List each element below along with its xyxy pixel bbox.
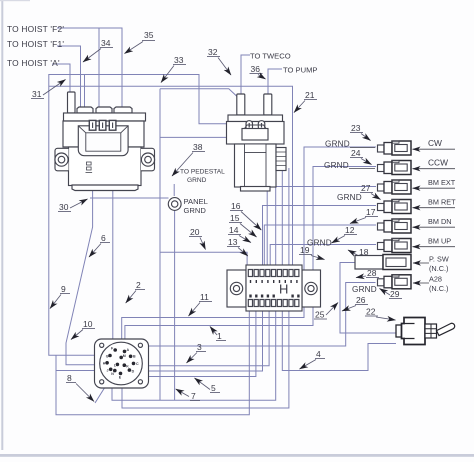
svg-text:11: 11 <box>200 292 209 302</box>
svg-text:22: 22 <box>366 307 376 317</box>
wire CW route to connector <box>122 147 376 350</box>
svg-text:M: M <box>123 354 126 358</box>
tab 1 <box>77 107 93 113</box>
svg-text:GRND: GRND <box>325 140 350 149</box>
svg-text:15: 15 <box>230 213 240 223</box>
right-side plug BM RET <box>378 200 412 214</box>
svg-text:K: K <box>126 364 129 368</box>
wire solenoid A to connector top <box>112 131 114 351</box>
svg-text:2: 2 <box>136 280 141 290</box>
label TO PEDESTAL GRND <box>180 169 225 185</box>
wire TO HOIST F2 to solenoid A tab3 <box>57 28 122 107</box>
wire strip exit5 to connector bottom <box>112 311 276 400</box>
callout 10 <box>71 319 95 340</box>
wire strip exit7 to connector bottom 2 <box>122 311 289 408</box>
wire A2B to under strip <box>148 283 376 347</box>
svg-text:TO PEDESTAL: TO PEDESTAL <box>180 169 225 176</box>
right-side plug A28 <box>378 275 412 289</box>
barrel circle <box>100 342 143 385</box>
svg-text:N: N <box>111 372 114 376</box>
cylinder terminal <box>68 92 76 113</box>
pin J <box>119 372 123 376</box>
svg-text:TO HOIST 'A': TO HOIST 'A' <box>7 58 60 68</box>
callout 2 <box>126 280 145 303</box>
label BM EXT <box>413 178 456 188</box>
connector pins <box>103 347 139 380</box>
callout 22 <box>365 307 396 321</box>
pin M <box>123 363 127 367</box>
callout 25 <box>314 303 338 320</box>
right-side plug BM UP <box>378 239 412 253</box>
cylinder 2 <box>264 94 272 115</box>
callout 28 <box>356 268 379 278</box>
wire long vertical x160 <box>159 89 161 401</box>
svg-text:TO HOIST 'F1': TO HOIST 'F1' <box>7 39 64 49</box>
callouts <box>31 30 402 402</box>
pin K <box>119 356 123 360</box>
lower body <box>235 144 277 187</box>
callout 26 <box>342 295 368 311</box>
callout 19 <box>299 245 325 260</box>
callout 13 <box>227 237 248 256</box>
svg-text:6: 6 <box>101 233 106 243</box>
callout 1 <box>210 327 226 342</box>
strip top tiny digits <box>250 280 298 283</box>
callout 17 <box>350 207 378 224</box>
terminal strip H <box>227 265 321 311</box>
svg-text:33: 33 <box>174 55 184 65</box>
svg-text:16: 16 <box>231 201 241 211</box>
svg-text:P. SW: P. SW <box>429 255 449 264</box>
right-side plug BM DN <box>378 219 412 233</box>
bottom flange <box>241 187 271 192</box>
callout 12 <box>332 225 358 243</box>
callout 8 <box>66 373 94 402</box>
svg-text:20: 20 <box>190 227 200 237</box>
pin C <box>108 354 112 358</box>
strip bottom tiny digits <box>249 295 299 298</box>
svg-text:TO HOIST 'F2': TO HOIST 'F2' <box>7 24 64 34</box>
label A28 (N.C.) <box>413 275 448 294</box>
callout 5 <box>195 378 221 393</box>
svg-text:8: 8 <box>67 373 72 383</box>
wire strip exit2 to connector right <box>142 311 256 377</box>
svg-text:13: 13 <box>228 237 238 247</box>
wire strip exit4 to connector right <box>142 311 269 366</box>
callout 6 <box>89 233 110 257</box>
wire panel grnd link <box>90 197 169 199</box>
pin H <box>128 368 132 372</box>
wire pin 8 diagonal <box>95 372 114 403</box>
lever <box>437 323 455 335</box>
top edge mark <box>0 0 30 1</box>
wire TO HOIST A to solenoid A cylinder <box>52 64 70 92</box>
wire into solenoid B coil base <box>160 89 238 113</box>
bottom flange <box>72 185 138 191</box>
pin N <box>113 369 117 373</box>
svg-text:31: 31 <box>32 89 42 99</box>
wire CCW route to connector <box>125 167 376 353</box>
recess panel <box>78 126 128 156</box>
svg-text:CW: CW <box>428 138 442 148</box>
top plate <box>228 115 283 122</box>
svg-text:36: 36 <box>251 64 261 74</box>
right-side plug P SW <box>355 255 411 270</box>
oval terminal 1 <box>246 121 253 131</box>
svg-text:CCW: CCW <box>428 158 448 168</box>
top terminal row <box>248 270 299 277</box>
wire TO TWECO dash to cylinder1 <box>241 55 250 94</box>
svg-text:GRND: GRND <box>324 161 349 170</box>
wire bottom loop to strip <box>56 311 249 415</box>
svg-text:9: 9 <box>61 284 66 294</box>
callout 35 <box>125 30 156 54</box>
small vent mark <box>87 162 92 165</box>
wire BM DN to strip <box>264 225 376 270</box>
right-side plug CW <box>378 141 412 155</box>
right connector tab <box>276 148 286 171</box>
svg-text:H: H <box>103 362 106 366</box>
terminal sq 3 <box>109 120 116 130</box>
callout 32 <box>207 47 231 75</box>
right mount plate <box>302 270 321 307</box>
svg-text:C: C <box>136 362 139 366</box>
svg-text:17: 17 <box>366 207 376 217</box>
callout 7 <box>176 389 200 401</box>
wire strip exit3 to connector right <box>142 311 263 371</box>
wire H2 long horizontal to strip <box>49 86 293 270</box>
svg-text:27: 27 <box>361 183 371 193</box>
svg-text:BM EXT: BM EXT <box>428 178 456 187</box>
label P SW (N.C.) <box>413 255 449 274</box>
tab 2 <box>96 107 112 113</box>
oval terminal 2 <box>258 121 265 131</box>
body <box>402 318 426 345</box>
callout 23 <box>350 123 371 141</box>
wire branch into solenoid B inner <box>160 136 242 138</box>
callout 14 <box>228 225 251 243</box>
pin E <box>105 361 109 365</box>
svg-text:H: H <box>279 282 288 297</box>
svg-text:34: 34 <box>101 38 111 48</box>
svg-text:12: 12 <box>345 225 355 235</box>
upper body <box>63 121 144 147</box>
svg-text:J: J <box>107 369 109 373</box>
callout 30 <box>58 199 88 212</box>
callout 29 <box>380 289 403 300</box>
toggle switch 22 <box>396 318 455 345</box>
svg-text:5: 5 <box>211 383 216 393</box>
svg-text:A28: A28 <box>429 275 442 284</box>
svg-text:TO TWECO: TO TWECO <box>250 52 291 61</box>
right-side plug BM EXT <box>378 180 412 194</box>
wire BM UP to strip <box>270 245 376 271</box>
lower body <box>69 147 142 186</box>
label CW <box>413 138 456 149</box>
svg-text:38: 38 <box>193 142 203 152</box>
left border bar <box>1 0 3 450</box>
svg-text:PANEL: PANEL <box>184 197 208 206</box>
svg-text:BM RET: BM RET <box>428 198 456 207</box>
svg-text:24: 24 <box>351 148 361 158</box>
svg-text:23: 23 <box>351 123 361 133</box>
upper body <box>227 122 285 145</box>
svg-text:4: 4 <box>316 349 321 359</box>
callout 9 <box>50 284 70 309</box>
svg-text:26: 26 <box>356 295 366 305</box>
svg-text:(N.C.): (N.C.) <box>429 284 448 293</box>
svg-text:35: 35 <box>144 30 154 40</box>
round receptacle connector <box>95 339 149 388</box>
corner holes <box>100 343 104 347</box>
right-side plug CCW <box>378 161 412 175</box>
cylinder 1 <box>237 94 245 115</box>
svg-text:25: 25 <box>315 310 325 320</box>
callout 21 <box>294 90 317 113</box>
pin G <box>109 368 113 372</box>
pin L <box>116 363 120 367</box>
callout 3 <box>187 342 207 363</box>
svg-text:30: 30 <box>59 202 69 212</box>
label BM UP <box>413 237 456 247</box>
callout 31 <box>31 80 66 100</box>
solenoid/contactor 32 (tweco/pump) <box>227 94 287 191</box>
svg-text:GRND: GRND <box>187 177 207 184</box>
callout 33 <box>161 55 186 83</box>
pin D <box>129 355 133 359</box>
panel ground lug <box>168 198 181 211</box>
bushing nuts <box>425 324 437 338</box>
pin B <box>123 350 127 354</box>
callout 24 <box>350 148 372 165</box>
bottom terminal row <box>248 300 299 307</box>
svg-text:B: B <box>133 355 136 359</box>
label BM DN <box>413 217 456 227</box>
svg-text:A: A <box>127 348 130 352</box>
svg-text:3: 3 <box>197 342 202 352</box>
svg-text:G: G <box>106 355 109 359</box>
svg-text:29: 29 <box>390 289 400 299</box>
central block <box>246 265 302 311</box>
wire BM EXT to strip <box>267 187 376 271</box>
svg-text:D: D <box>132 370 135 374</box>
callout 20 <box>189 227 206 250</box>
tab 3 <box>114 107 132 113</box>
svg-text:21: 21 <box>305 90 315 100</box>
svg-text:10: 10 <box>83 319 93 329</box>
svg-text:1: 1 <box>217 331 222 341</box>
wire solenoid A bottom diagonal to connector <box>66 131 99 365</box>
svg-text:14: 14 <box>229 225 239 235</box>
solenoid/contactor 30 (hoist) <box>55 92 155 191</box>
wire pedestal grnd up <box>173 184 175 196</box>
callout 4 <box>300 349 326 369</box>
svg-text:TO PUMP: TO PUMP <box>283 66 317 75</box>
svg-text:GRND: GRND <box>307 239 332 248</box>
terminal sq 2 <box>99 120 106 130</box>
right ear <box>141 148 155 171</box>
pin F <box>132 362 136 366</box>
svg-text:BM DN: BM DN <box>428 217 452 226</box>
svg-text:7: 7 <box>191 391 196 401</box>
wire strip exit6 to switch lower <box>282 311 396 371</box>
wire H1 left loop to solenoid B coil <box>49 75 246 356</box>
callout 18 <box>348 247 371 257</box>
wire connector left entry 3 <box>56 370 99 372</box>
callout 27 <box>360 183 381 200</box>
top plate <box>64 113 146 121</box>
callout 16 <box>230 201 261 230</box>
wire H1 branch to tab1 <box>84 74 86 107</box>
wire tab2 top loop to terminal strip <box>98 28 100 107</box>
callout 36 <box>250 64 266 79</box>
terminal sq 1 <box>89 120 96 130</box>
wire solenoid B tab exits to strip <box>275 168 277 270</box>
wire TO PUMP to cylinder2 <box>268 69 282 94</box>
left plate <box>396 325 402 337</box>
callout 38 <box>172 142 205 176</box>
label CCW <box>413 158 456 169</box>
svg-text:GRND: GRND <box>337 193 362 202</box>
left ear <box>55 148 69 171</box>
callout 34 <box>83 38 113 62</box>
svg-text:GRND: GRND <box>352 285 377 294</box>
svg-text:(N.C.): (N.C.) <box>429 264 448 273</box>
wire TO HOIST F1 to solenoid A tab1 <box>57 46 81 107</box>
wire panel grnd down to bottom run <box>174 211 176 401</box>
wire BM RET to strip <box>263 206 377 271</box>
inner box <box>242 129 268 141</box>
wire P SW to toggle switch <box>340 263 396 334</box>
wire branch to strip top1 <box>160 252 247 270</box>
square flange <box>95 339 149 388</box>
callout 15 <box>229 213 257 237</box>
label BM RET <box>413 198 457 208</box>
pin A <box>113 348 117 352</box>
callout 11 <box>189 292 213 316</box>
left mount plate <box>227 270 246 307</box>
svg-text:GRND: GRND <box>184 206 207 215</box>
bottom border bar <box>0 454 474 457</box>
svg-text:BM UP: BM UP <box>428 237 451 246</box>
svg-text:32: 32 <box>208 47 218 57</box>
